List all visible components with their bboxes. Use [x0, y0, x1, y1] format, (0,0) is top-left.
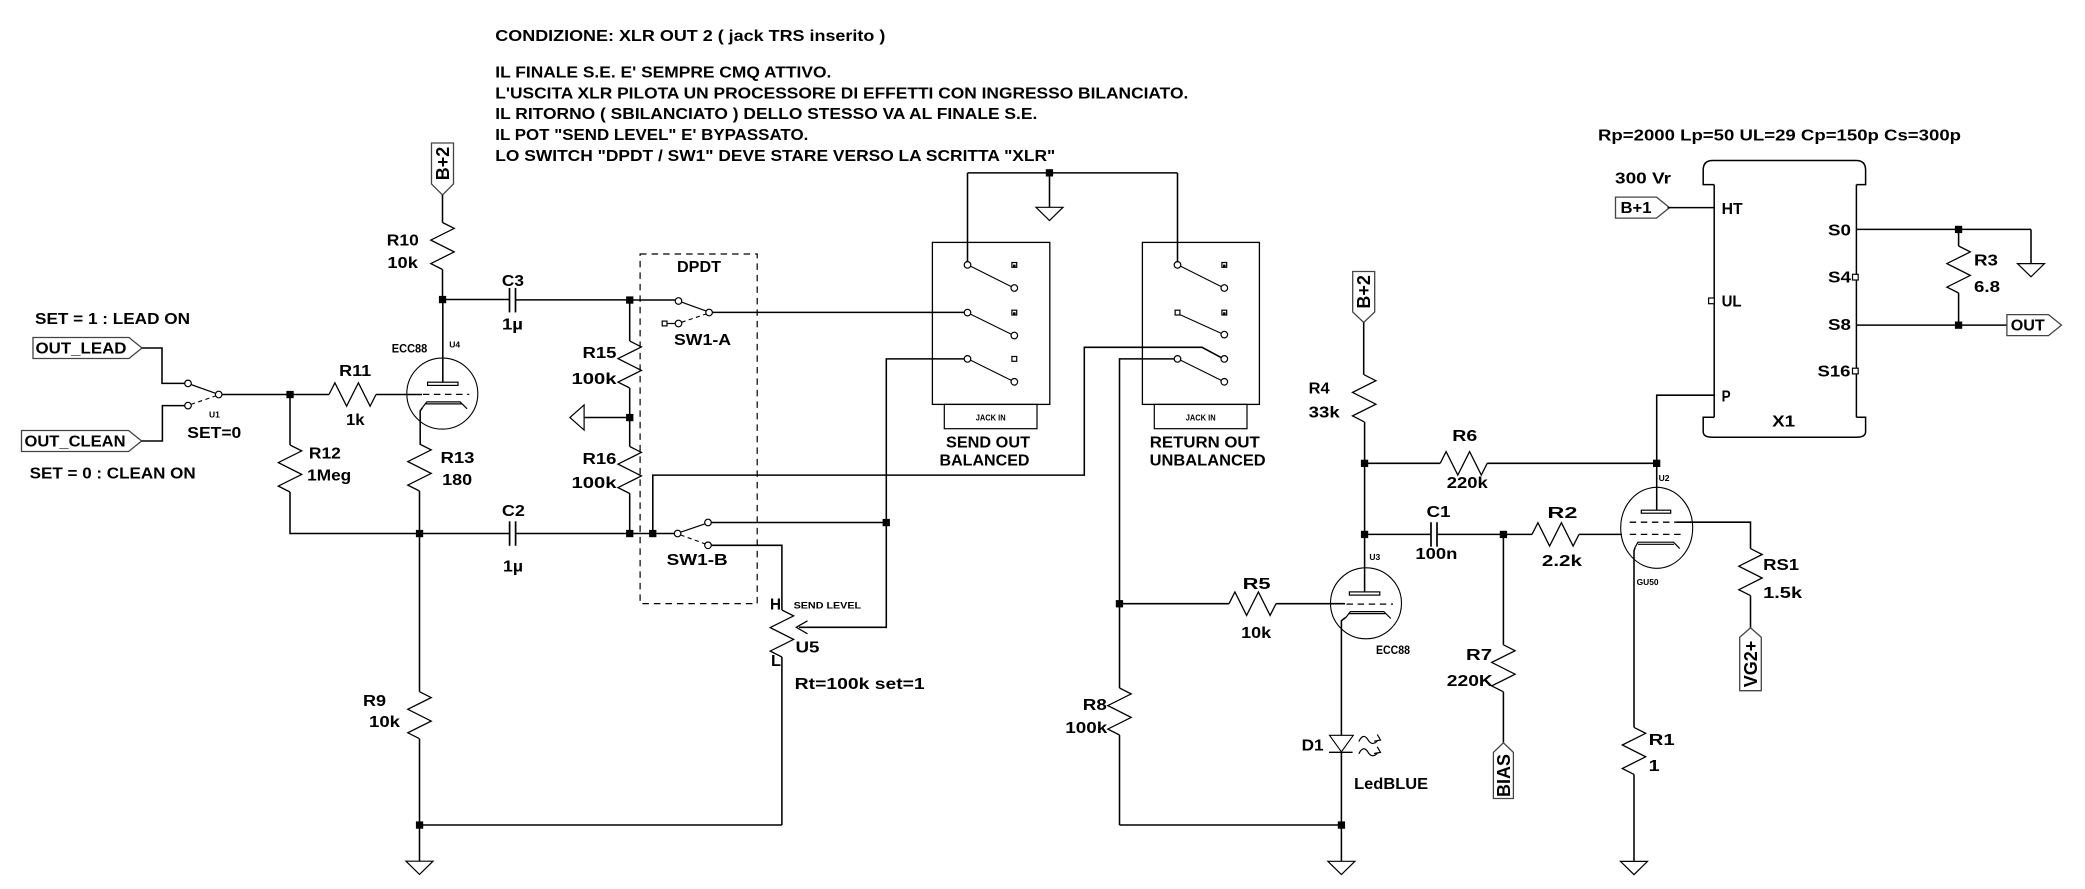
svg-text:1µ: 1µ: [502, 317, 523, 334]
ground top center: [1049, 173, 1051, 207]
node R5/R8 junction: [1116, 600, 1123, 607]
jack J1 row1 blade: [971, 266, 1012, 286]
ground at S0: [2030, 229, 2032, 263]
node OUT_CLEAN flag: [22, 431, 142, 452]
svg-text:Rp=2000 Lp=50 UL=29 Cp=150p Cs: Rp=2000 Lp=50 UL=29 Cp=150p Cs=300p: [1598, 128, 1961, 145]
jack J1 row3 contacts: [964, 356, 971, 363]
node S8 junction: [1955, 322, 1962, 329]
node OUT flag: [2007, 315, 2062, 336]
transistor U2 tube GU50 pentode: [1621, 487, 1693, 568]
jack J1 row2 contacts: [964, 309, 971, 316]
svg-text:SET = 0 : CLEAN ON: SET = 0 : CLEAN ON: [30, 466, 196, 483]
transformer X1 body: [1713, 185, 1715, 418]
switch SW1-B contact bottom: [705, 542, 712, 549]
op-amp U4 tube ECC88 triode: [407, 358, 478, 429]
wire SW1-B top contact to wiper node: [711, 522, 886, 524]
tube U4 anode lead: [442, 300, 444, 383]
svg-text:180: 180: [442, 472, 472, 489]
svg-text:L: L: [771, 653, 781, 670]
svg-text:10k: 10k: [387, 255, 418, 272]
wire B+1 to HT: [1668, 207, 1715, 209]
switch SW1-A blade dashed: [682, 314, 707, 322]
svg-text:R11: R11: [339, 363, 371, 380]
capacitor C3: [443, 299, 510, 301]
wire wiper node up to SEND OUT jack: [886, 359, 964, 523]
resistor R2: [1503, 533, 1532, 535]
node C1 junction: [1361, 531, 1368, 538]
resistor R15: [629, 300, 631, 341]
transformer pin UL: [1709, 298, 1715, 304]
potentiometer U5: [770, 610, 793, 657]
switch U1 contact CLEAN: [185, 402, 192, 409]
jack J2 row1 contacts: [1174, 262, 1181, 269]
svg-text:R5: R5: [1243, 576, 1271, 593]
resistor R8: [1119, 604, 1121, 688]
switch SW1-A pole: [706, 309, 713, 316]
svg-text:CONDIZIONE: XLR OUT 2 ( jack: CONDIZIONE: XLR OUT 2 ( jack TRS inserit…: [495, 28, 885, 45]
svg-text:R1: R1: [1649, 732, 1675, 749]
svg-text:VG2+: VG2+: [1741, 641, 1761, 688]
jack J1 SEND OUT BALANCED box: [932, 242, 1049, 404]
jack J2 row3 blade: [1181, 360, 1222, 380]
svg-text:R2: R2: [1547, 505, 1577, 522]
power flag B+1: [1616, 197, 1670, 218]
svg-text:BALANCED: BALANCED: [940, 453, 1030, 470]
capacitor C2: [420, 533, 510, 535]
tube U2 cathode lead: [1634, 548, 1635, 728]
svg-text:U4: U4: [449, 340, 460, 350]
node top ground junction: [1046, 169, 1053, 176]
svg-text:P: P: [1722, 389, 1731, 406]
svg-text:U2: U2: [1659, 473, 1670, 483]
wire OUT_CLEAN to switch U1: [142, 406, 185, 441]
transformer pin S0: [1856, 228, 2031, 230]
svg-text:220k: 220k: [1447, 475, 1488, 492]
switch SW1-A terminal square: [667, 323, 675, 325]
jack J2 row1 blade: [1181, 266, 1222, 286]
svg-text:GU50: GU50: [1637, 577, 1659, 587]
resistor R13: [408, 444, 431, 491]
switch SW1-A contact top: [675, 298, 682, 305]
tube U2 control grid g1 dashed: [1630, 533, 1683, 535]
power flag B+2 (right): [1353, 272, 1375, 323]
node R6/P junction: [1653, 460, 1660, 467]
node SW1-B junction: [649, 530, 656, 537]
svg-text:1k: 1k: [346, 412, 365, 429]
svg-text:1Meg: 1Meg: [307, 468, 351, 485]
svg-text:X1: X1: [1772, 414, 1795, 431]
wire R4 junction down to C1 node: [1364, 463, 1366, 534]
svg-text:R9: R9: [363, 693, 386, 710]
svg-text:33k: 33k: [1309, 405, 1340, 422]
power flag B+2 (left): [432, 143, 454, 195]
svg-text:JACK IN: JACK IN: [1186, 413, 1216, 423]
input arrow symbol: [570, 405, 584, 430]
svg-text:2.2k: 2.2k: [1542, 553, 1582, 570]
resistor R5: [1120, 603, 1230, 605]
svg-text:U1: U1: [209, 410, 220, 420]
resistor R10: [442, 195, 444, 223]
svg-text:ECC88: ECC88: [1376, 645, 1411, 657]
svg-text:R7: R7: [1466, 647, 1492, 664]
svg-text:R10: R10: [387, 233, 419, 250]
resistor R6: [1365, 462, 1441, 464]
svg-text:220K: 220K: [1447, 673, 1494, 690]
wire jack J1 sleeve up to ground rail: [967, 173, 969, 262]
svg-text:R13: R13: [441, 450, 475, 467]
svg-text:OUT_CLEAN: OUT_CLEAN: [25, 434, 126, 451]
svg-text:1µ: 1µ: [503, 559, 523, 576]
tube U3 anode lead: [1364, 534, 1366, 592]
svg-text:S8: S8: [1828, 317, 1851, 334]
svg-text:R12: R12: [309, 446, 341, 463]
node C3-right junction: [626, 296, 633, 303]
svg-text:100k: 100k: [572, 475, 617, 492]
wire bottom rail right: [1120, 824, 1342, 826]
node S0 junction: [1955, 226, 1962, 233]
op-amp U3 tube ECC88 triode: [1331, 568, 1402, 639]
svg-text:SEND LEVEL: SEND LEVEL: [794, 600, 862, 611]
svg-text:10k: 10k: [1241, 625, 1271, 642]
tube U2 anode lead: [1656, 463, 1658, 510]
svg-text:100k: 100k: [1065, 720, 1107, 737]
wire rail down to RETURN OUT jack: [1177, 173, 1179, 262]
transformer pin S4: [1853, 274, 1859, 280]
resistor R1: [1622, 727, 1645, 774]
wire top ground rail: [968, 172, 1178, 174]
resistor R3: [1958, 229, 1960, 246]
svg-text:ECC88: ECC88: [392, 344, 428, 356]
switch SW1-B pole: [674, 530, 681, 537]
resistor RS1: [1739, 549, 1762, 596]
svg-text:10k: 10k: [369, 714, 400, 731]
svg-text:SEND OUT: SEND OUT: [946, 435, 1030, 452]
svg-text:B+2: B+2: [1354, 275, 1374, 309]
wire U1 pole to node A: [222, 394, 290, 396]
svg-text:SET = 1 : LEAD ON: SET = 1 : LEAD ON: [35, 311, 190, 328]
switch SW1-B blade solid: [681, 524, 706, 532]
node anode/C3 junction: [439, 296, 446, 303]
resistor R12: [289, 395, 291, 446]
transformer pin S16: [1853, 368, 1859, 374]
wire SW1-A pole to SEND OUT jack: [712, 311, 964, 313]
node R4/R6 junction: [1361, 460, 1368, 467]
svg-text:D1: D1: [1302, 738, 1324, 755]
switch U1 contact LEAD: [185, 380, 192, 387]
resistor R16: [629, 418, 631, 447]
svg-text:SW1-B: SW1-B: [667, 552, 728, 569]
switch U1 blade dashed: [191, 396, 216, 405]
wire down to R9: [419, 534, 421, 692]
svg-text:SET=0: SET=0: [187, 425, 241, 442]
svg-text:S0: S0: [1828, 223, 1851, 240]
switch SW1-A blade solid: [681, 302, 706, 311]
wire g2 to RS1: [1676, 522, 1750, 548]
switch SW1-B blade dashed: [681, 535, 706, 544]
resistor R11: [290, 394, 329, 396]
jack J1 row1 contacts: [964, 262, 971, 269]
svg-text:SW1-A: SW1-A: [674, 332, 731, 349]
svg-text:B+2: B+2: [433, 147, 453, 181]
switch SW1-A contact bottom: [675, 320, 682, 327]
power flag BIAS: [1493, 743, 1513, 799]
switch U1 pole: [215, 391, 222, 398]
svg-text:RETURN OUT: RETURN OUT: [1150, 435, 1260, 452]
jack J2 RETURN OUT UNBALANCED box: [1142, 242, 1259, 404]
LED D1: [1330, 735, 1354, 752]
svg-text:UL: UL: [1722, 294, 1742, 311]
svg-text:L'USCITA XLR PILOTA UN PROCESS: L'USCITA XLR PILOTA UN PROCESSORE DI EFF…: [495, 85, 1188, 102]
node OUT_LEAD flag: [33, 338, 142, 359]
tube U3 cathode lead: [1341, 617, 1346, 735]
resistor R7: [1502, 534, 1504, 644]
svg-text:R6: R6: [1452, 428, 1477, 445]
wire bottom rail left: [420, 824, 782, 826]
svg-text:100n: 100n: [1415, 546, 1457, 563]
node C1/R7 junction: [1500, 531, 1507, 538]
svg-text:C1: C1: [1427, 504, 1451, 521]
capacitor C1: [1365, 533, 1431, 535]
node A junction: [286, 391, 293, 398]
svg-text:R3: R3: [1974, 253, 1998, 270]
LED D1 emission arrows: [1359, 736, 1378, 743]
svg-text:R4: R4: [1309, 380, 1330, 397]
resistor R4: [1363, 323, 1365, 375]
svg-text:B+1: B+1: [1621, 200, 1652, 217]
svg-text:100k: 100k: [572, 371, 617, 388]
jack J1 row2 blade: [971, 314, 1012, 334]
svg-text:HT: HT: [1722, 201, 1743, 218]
node bottom-left junction: [416, 821, 423, 828]
jack J1 row3 blade: [971, 360, 1012, 380]
svg-text:S16: S16: [1818, 364, 1851, 381]
svg-text:C2: C2: [502, 503, 525, 520]
wire SW1-B bottom contact to pot U5: [711, 545, 782, 610]
ground below LED: [1340, 825, 1342, 861]
wire jack J2 row3 to R5 node: [1120, 359, 1175, 604]
svg-text:R8: R8: [1083, 697, 1107, 714]
svg-text:Rt=100k set=1: Rt=100k set=1: [795, 676, 925, 693]
wire to SW1-B pole: [653, 533, 675, 535]
ground below R1: [1633, 860, 1635, 862]
switch SW1-B contact top: [705, 519, 712, 526]
svg-text:BIAS: BIAS: [1494, 754, 1514, 797]
tube U4 cathode lead: [420, 407, 422, 444]
svg-text:OUT_LEAD: OUT_LEAD: [36, 341, 127, 358]
svg-text:R16: R16: [583, 451, 617, 468]
svg-text:1: 1: [1649, 758, 1660, 775]
transformer pin S8: [1856, 324, 2007, 326]
wire junction up to transformer P: [1657, 395, 1715, 463]
svg-text:R15: R15: [583, 345, 617, 362]
svg-text:H: H: [770, 597, 781, 614]
svg-text:1.5k: 1.5k: [1763, 585, 1802, 602]
svg-text:IL RITORNO ( SBILANCIATO ) DEL: IL RITORNO ( SBILANCIATO ) DELLO STESSO …: [495, 106, 1037, 123]
node R15/R16 junction with arrow: [626, 414, 633, 421]
wire net XLR: SW1-B junction to RETURN OUT jack: [653, 347, 1221, 533]
svg-text:UNBALANCED: UNBALANCED: [1150, 453, 1266, 470]
svg-text:OUT: OUT: [2011, 318, 2045, 335]
resistor R9: [408, 692, 431, 739]
jack J2 row2 contacts: [1175, 310, 1180, 315]
svg-text:6.8: 6.8: [1974, 279, 2000, 296]
jack J2 row2 blade: [1180, 315, 1221, 334]
tube U2 cathode: [1635, 542, 1680, 548]
svg-text:U3: U3: [1369, 552, 1380, 562]
node C2-left junction: [416, 530, 423, 537]
tube U2 screen grid g2 dashed: [1630, 521, 1677, 523]
wire OUT_LEAD to switch U1: [142, 348, 185, 383]
switch SW1-A wire in: [630, 299, 676, 301]
svg-text:U5: U5: [796, 640, 820, 657]
svg-text:IL FINALE S.E. E' SEMPRE CMQ A: IL FINALE S.E. E' SEMPRE CMQ ATTIVO.: [495, 65, 831, 82]
svg-text:300 Vr: 300 Vr: [1615, 171, 1671, 188]
svg-text:C3: C3: [502, 273, 524, 290]
svg-text:S4: S4: [1828, 270, 1851, 287]
power flag VG2+: [1740, 628, 1762, 691]
potentiometer U5 wiper arrow: [883, 519, 890, 526]
svg-text:JACK IN: JACK IN: [976, 413, 1006, 423]
switch U1 blade solid: [191, 385, 216, 394]
svg-text:LO SWITCH "DPDT / SW1" DEVE ST: LO SWITCH "DPDT / SW1" DEVE STARE VERSO …: [495, 148, 1055, 165]
ground below R9: [419, 825, 421, 861]
svg-text:RS1: RS1: [1763, 557, 1799, 574]
node bottom rail junction: [1338, 821, 1345, 828]
node C2/R16 junction: [626, 530, 633, 537]
wire C2 junction to SW1-B junction: [630, 533, 653, 535]
DPDT dashed box: [640, 254, 757, 604]
svg-text:LedBLUE: LedBLUE: [1354, 776, 1428, 793]
svg-text:DPDT: DPDT: [677, 259, 721, 276]
jack J2 row3 contacts: [1174, 356, 1181, 363]
svg-text:IL POT "SEND LEVEL" E' BYPASSA: IL POT "SEND LEVEL" E' BYPASSATO.: [495, 127, 808, 144]
